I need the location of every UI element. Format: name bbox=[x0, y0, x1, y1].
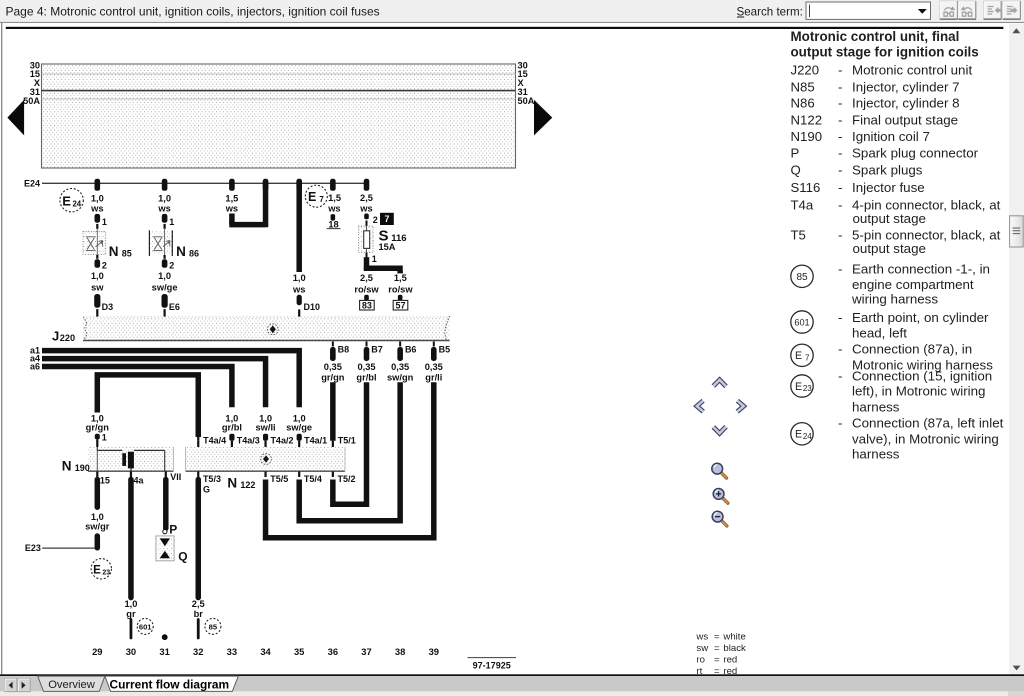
svg-text:2,5: 2,5 bbox=[360, 273, 373, 283]
svg-text:4a: 4a bbox=[134, 475, 145, 485]
svg-text:E: E bbox=[795, 350, 802, 362]
svg-text:0,35: 0,35 bbox=[425, 362, 443, 372]
svg-text:T5: T5 bbox=[791, 227, 806, 242]
svg-text:D3: D3 bbox=[102, 302, 114, 312]
svg-text:Ignition coil 7: Ignition coil 7 bbox=[852, 129, 930, 144]
ignition coil N190 bbox=[62, 447, 174, 474]
svg-text:ws: ws bbox=[157, 204, 170, 214]
svg-text:37: 37 bbox=[361, 646, 371, 657]
legend entry S116 bbox=[791, 180, 925, 195]
earth circle 601 bbox=[137, 618, 153, 634]
svg-text:39: 39 bbox=[429, 646, 439, 657]
svg-text:7: 7 bbox=[319, 195, 324, 204]
svg-text:35: 35 bbox=[294, 646, 304, 657]
svg-text:T5/4: T5/4 bbox=[304, 474, 322, 484]
svg-text:50A: 50A bbox=[518, 96, 535, 106]
bus labels left bbox=[23, 61, 41, 106]
svg-text:1,5: 1,5 bbox=[394, 273, 407, 283]
pin 15 bbox=[96, 472, 110, 486]
svg-text:1,0: 1,0 bbox=[91, 271, 104, 281]
svg-text:N122: N122 bbox=[791, 112, 823, 127]
bus labels right bbox=[518, 61, 535, 106]
svg-text:P: P bbox=[169, 522, 177, 536]
svg-text:1,0: 1,0 bbox=[158, 271, 171, 281]
svg-text:85: 85 bbox=[796, 272, 808, 283]
nav arrow down bbox=[713, 427, 726, 434]
svg-text:15: 15 bbox=[100, 475, 110, 485]
fuse S116 15A bbox=[359, 226, 407, 253]
svg-text:-: - bbox=[838, 342, 842, 357]
svg-text:ro/sw: ro/sw bbox=[354, 285, 379, 295]
svg-text:7: 7 bbox=[384, 214, 389, 224]
svg-text:601: 601 bbox=[139, 622, 152, 631]
svg-text:1,0: 1,0 bbox=[91, 512, 104, 522]
tab Current flow diagram (active) bbox=[105, 676, 238, 691]
svg-text:white: white bbox=[722, 632, 745, 643]
connection circle E7 bbox=[305, 185, 327, 207]
svg-text:-: - bbox=[838, 95, 842, 110]
svg-text:red: red bbox=[723, 655, 737, 666]
nav arrow right bbox=[737, 401, 744, 412]
svg-text:T5/3: T5/3 bbox=[203, 474, 221, 484]
legend entry N122 bbox=[791, 112, 959, 127]
Motronic control unit J220 bbox=[52, 316, 450, 343]
wire T5/5 to B5 bbox=[266, 382, 434, 538]
svg-text:output stage: output stage bbox=[853, 211, 926, 226]
svg-text:34: 34 bbox=[260, 646, 271, 657]
legend entry Q bbox=[791, 163, 923, 178]
wire 0,35 gr/gn from pin B8 bbox=[321, 342, 349, 383]
svg-text:1: 1 bbox=[169, 217, 174, 227]
node E23 spur bbox=[25, 543, 95, 553]
magnifier zoom-in icon bbox=[713, 489, 728, 504]
wire 1,0 gr/gn staple N190 pin1 to T4a/4 bbox=[86, 375, 200, 447]
svg-text:wiring harness: wiring harness bbox=[851, 291, 938, 306]
svg-text:Q: Q bbox=[178, 550, 187, 564]
connection circle E23 bbox=[91, 559, 111, 579]
svg-text:0,35: 0,35 bbox=[324, 362, 342, 372]
svg-text:E: E bbox=[795, 381, 802, 393]
pin T5/5 bbox=[264, 472, 288, 484]
legend entry T4a bbox=[791, 197, 1001, 212]
svg-text:sw/li: sw/li bbox=[255, 422, 275, 432]
svg-text:31: 31 bbox=[159, 646, 169, 657]
bottom rule of diagram pane bbox=[0, 674, 1024, 676]
svg-text:T4a/2: T4a/2 bbox=[270, 436, 293, 446]
continuation arrow left bbox=[7, 100, 24, 136]
svg-text:Connection (15, ignition: Connection (15, ignition bbox=[852, 368, 992, 383]
svg-text:N: N bbox=[62, 459, 72, 474]
legend entry N86 bbox=[791, 95, 960, 110]
svg-text:D10: D10 bbox=[304, 302, 321, 312]
wire 2,5 ro/sw + 1,5 ro/sw branch bbox=[354, 257, 413, 300]
svg-text:24: 24 bbox=[803, 432, 812, 441]
svg-text:Injector fuse: Injector fuse bbox=[852, 180, 925, 195]
svg-text:sw/ge: sw/ge bbox=[286, 422, 312, 432]
toolbar button: jump back bbox=[984, 1, 1002, 19]
svg-text:N: N bbox=[109, 244, 119, 259]
wire a4 1,0 sw/li to T4a bbox=[30, 354, 276, 448]
svg-text:gr/gn: gr/gn bbox=[86, 422, 110, 432]
svg-text:gr/li: gr/li bbox=[425, 373, 442, 383]
current track box 7 bbox=[380, 213, 394, 225]
svg-text:Page 4: Motronic control unit,: Page 4: Motronic control unit, ignition … bbox=[6, 4, 380, 18]
svg-text:-: - bbox=[838, 163, 842, 178]
toolbar background bbox=[0, 0, 1024, 22]
legend title bbox=[791, 29, 979, 59]
svg-text:head, left: head, left bbox=[852, 325, 907, 340]
tab scroll button left bbox=[5, 679, 17, 692]
wire a1 1,0 sw/ge to T4a bbox=[30, 346, 312, 448]
svg-text:J: J bbox=[52, 328, 59, 343]
wire 1,0 ws column 31 bbox=[157, 193, 174, 229]
svg-text:N86: N86 bbox=[791, 95, 815, 110]
wire T5/2 to B7 bbox=[333, 382, 367, 504]
svg-text:harness: harness bbox=[852, 399, 900, 414]
svg-text:-: - bbox=[838, 261, 842, 276]
svg-text:2: 2 bbox=[373, 215, 378, 225]
svg-text:1: 1 bbox=[372, 254, 377, 264]
wire colour key bbox=[695, 632, 746, 678]
legend entry J220 bbox=[791, 62, 973, 77]
svg-text:output stage: output stage bbox=[853, 241, 926, 256]
svg-text:190: 190 bbox=[75, 463, 90, 473]
earth point dot (601) bbox=[162, 634, 168, 640]
pin T5/2 bbox=[332, 472, 356, 484]
wire 1,0 sw column 29 bbox=[91, 255, 113, 317]
svg-text:Overview: Overview bbox=[48, 679, 96, 691]
svg-text:N: N bbox=[176, 244, 186, 259]
bus bar box 30/15/X/31/50A bbox=[42, 64, 516, 168]
svg-text:T5/1: T5/1 bbox=[338, 436, 356, 446]
svg-text:black: black bbox=[723, 643, 746, 654]
svg-text:harness: harness bbox=[852, 447, 900, 462]
svg-text:2: 2 bbox=[102, 260, 107, 270]
wire 1,0 gr column 30 to earth 601 bbox=[124, 480, 137, 639]
svg-text:T5/5: T5/5 bbox=[270, 474, 288, 484]
svg-text:a6: a6 bbox=[30, 361, 40, 371]
svg-text:ws: ws bbox=[327, 204, 340, 214]
svg-text:ws: ws bbox=[359, 204, 372, 214]
legend symbol earth connection 85 bbox=[791, 261, 990, 306]
toolbar button: jump forward bbox=[1003, 1, 1021, 19]
final output stage N122 bbox=[186, 447, 346, 491]
search combobox bbox=[806, 2, 931, 19]
E24 rail junctions bbox=[95, 179, 370, 191]
svg-text:30: 30 bbox=[126, 646, 136, 657]
svg-text:gr/gn: gr/gn bbox=[321, 373, 345, 383]
svg-text:-: - bbox=[838, 310, 842, 325]
svg-text:-: - bbox=[838, 80, 842, 95]
svg-text:gr: gr bbox=[126, 609, 136, 619]
legend entry N190 bbox=[791, 129, 930, 144]
svg-text:E: E bbox=[795, 429, 802, 441]
wire 1,0 ws column 29 bbox=[90, 193, 107, 229]
svg-text:B5: B5 bbox=[439, 345, 451, 355]
svg-text:engine compartment: engine compartment bbox=[852, 277, 974, 292]
wire 0,35 gr/bl from pin B7 bbox=[356, 342, 382, 383]
svg-text:1,0: 1,0 bbox=[293, 273, 306, 283]
svg-text:Earth point, on cylinder: Earth point, on cylinder bbox=[852, 310, 989, 325]
svg-text:15A: 15A bbox=[379, 242, 396, 252]
wire 0,35 sw/gn from pin B6 bbox=[387, 342, 416, 383]
svg-text:1,0: 1,0 bbox=[158, 193, 171, 203]
wire T5/4 to B6 bbox=[299, 382, 400, 521]
wire fuse output pin 1 bbox=[366, 253, 377, 264]
svg-text:=: = bbox=[714, 643, 720, 654]
svg-text:B7: B7 bbox=[371, 345, 383, 355]
svg-text:ws: ws bbox=[90, 204, 103, 214]
svg-text:-: - bbox=[838, 197, 842, 212]
svg-text:B8: B8 bbox=[338, 345, 350, 355]
svg-text:output stage for ignition coil: output stage for ignition coils bbox=[791, 44, 979, 59]
svg-text:Motronic control unit: Motronic control unit bbox=[852, 62, 972, 77]
wire 1,5 ws U-link columns 33-34 bbox=[225, 182, 266, 228]
wire 2,5 ws column 37 bbox=[359, 193, 377, 226]
svg-text:T4a/4: T4a/4 bbox=[203, 436, 226, 446]
svg-text:Search term:: Search term: bbox=[737, 5, 803, 18]
svg-text:N85: N85 bbox=[791, 80, 815, 95]
svg-text:ws: ws bbox=[225, 204, 238, 214]
svg-text:0,35: 0,35 bbox=[357, 362, 375, 372]
svg-text:T4a: T4a bbox=[791, 197, 814, 212]
svg-text:left), in Motronic wiring: left), in Motronic wiring bbox=[852, 384, 985, 399]
svg-text:-: - bbox=[838, 227, 842, 242]
svg-text:T4a/3: T4a/3 bbox=[237, 436, 260, 446]
svg-text:1,0: 1,0 bbox=[124, 599, 137, 609]
injector N85 bbox=[83, 228, 132, 259]
wire E24 rail bbox=[42, 182, 367, 184]
svg-text:2,5: 2,5 bbox=[360, 193, 373, 203]
svg-text:24: 24 bbox=[72, 199, 81, 208]
legend symbol earth point 601 bbox=[791, 310, 989, 341]
magnifier zoom-out icon bbox=[712, 511, 727, 526]
svg-text:18: 18 bbox=[328, 219, 338, 229]
svg-text:E: E bbox=[62, 194, 71, 209]
legend symbol connection E24 bbox=[791, 416, 1004, 462]
svg-text:86: 86 bbox=[189, 249, 199, 259]
svg-text:gr/bl: gr/bl bbox=[222, 422, 242, 432]
wire 0,35 gr/li from pin B5 bbox=[425, 342, 450, 383]
legend symbol connection E23 bbox=[791, 368, 992, 414]
svg-text:1,0: 1,0 bbox=[91, 193, 104, 203]
wire VII to spark plug connector P bbox=[163, 480, 178, 537]
svg-text:=: = bbox=[714, 655, 720, 666]
left pane border bbox=[1, 23, 2, 674]
svg-text:2,5: 2,5 bbox=[192, 599, 205, 609]
svg-text:85: 85 bbox=[122, 249, 132, 259]
svg-text:ro: ro bbox=[696, 655, 705, 666]
wire B8 to T5/1 bbox=[332, 382, 334, 447]
svg-text:38: 38 bbox=[395, 646, 405, 657]
svg-text:-: - bbox=[838, 62, 842, 77]
magnifier pan icon bbox=[712, 463, 727, 478]
svg-text:sw: sw bbox=[91, 283, 104, 293]
svg-text:sw/gr: sw/gr bbox=[85, 522, 110, 532]
svg-text:P: P bbox=[791, 146, 800, 161]
diagram number 97-17925 bbox=[468, 658, 517, 671]
tab bar bbox=[0, 676, 1024, 696]
svg-text:gr/bl: gr/bl bbox=[356, 373, 376, 383]
pin T5/3 with G bbox=[197, 472, 221, 495]
svg-text:S116: S116 bbox=[791, 180, 821, 195]
svg-text:E24: E24 bbox=[24, 179, 40, 189]
current track numbers 29-39 bbox=[92, 646, 439, 657]
pin VII bbox=[165, 472, 182, 482]
svg-text:ro/sw: ro/sw bbox=[388, 285, 413, 295]
wire 2,5 br column 32 to earth 85 bbox=[192, 480, 205, 639]
svg-text:E6: E6 bbox=[169, 302, 180, 312]
svg-text:Spark plug connector: Spark plug connector bbox=[852, 146, 979, 161]
svg-text:Connection (87a), in: Connection (87a), in bbox=[852, 342, 972, 357]
tab Overview bbox=[38, 676, 105, 691]
svg-text:N: N bbox=[227, 475, 237, 490]
svg-text:1: 1 bbox=[102, 433, 107, 443]
toolbar button: search forward bbox=[940, 1, 958, 19]
svg-text:122: 122 bbox=[240, 480, 255, 490]
svg-text:-: - bbox=[838, 368, 842, 383]
svg-text:1,5: 1,5 bbox=[328, 193, 341, 203]
earth circle 85 bbox=[205, 618, 221, 634]
svg-text:ws: ws bbox=[695, 632, 708, 643]
svg-text:29: 29 bbox=[92, 646, 102, 657]
svg-text:23: 23 bbox=[102, 570, 110, 577]
svg-text:97-17925: 97-17925 bbox=[473, 660, 511, 670]
legend symbol connection E7 bbox=[791, 342, 993, 373]
wire 1,0 sw/ge column 31 bbox=[152, 255, 180, 317]
svg-text:-: - bbox=[838, 416, 842, 431]
svg-text:32: 32 bbox=[193, 646, 203, 657]
svg-text:G: G bbox=[203, 484, 210, 494]
continuation arrow right bbox=[534, 100, 552, 136]
svg-text:B6: B6 bbox=[405, 345, 417, 355]
svg-text:-: - bbox=[838, 112, 842, 127]
toolbar button: search backward bbox=[958, 1, 976, 19]
svg-text:E: E bbox=[308, 190, 316, 204]
svg-text:50A: 50A bbox=[23, 96, 40, 106]
connection circle E24 bbox=[60, 189, 83, 212]
svg-text:Final output stage: Final output stage bbox=[852, 112, 958, 127]
spark plugs Q bbox=[156, 536, 188, 564]
terminal box 83 bbox=[360, 300, 375, 310]
svg-text:J220: J220 bbox=[791, 62, 820, 77]
svg-text:Spark plugs: Spark plugs bbox=[852, 163, 923, 178]
svg-text:Earth connection -1-, in: Earth connection -1-, in bbox=[852, 261, 990, 276]
svg-text:E23: E23 bbox=[25, 543, 41, 553]
svg-text:Current flow diagram: Current flow diagram bbox=[110, 678, 230, 692]
vertical scrollbar bbox=[1009, 24, 1024, 675]
svg-text:-: - bbox=[838, 129, 842, 144]
svg-text:Connection (87a, left inlet: Connection (87a, left inlet bbox=[852, 416, 1004, 431]
svg-text:Injector, cylinder 8: Injector, cylinder 8 bbox=[852, 95, 960, 110]
svg-text:1,5: 1,5 bbox=[225, 193, 238, 203]
tab scroll button right bbox=[18, 679, 30, 692]
top rule of diagram pane bbox=[6, 27, 1004, 29]
svg-text:85: 85 bbox=[209, 622, 218, 631]
svg-text:57: 57 bbox=[395, 300, 405, 310]
wire 1,5 ws column 36 to terminal 18 bbox=[327, 193, 341, 230]
svg-text:1: 1 bbox=[102, 217, 107, 227]
svg-text:N190: N190 bbox=[791, 129, 823, 144]
injector N86 bbox=[149, 228, 199, 259]
svg-text:br: br bbox=[194, 609, 204, 619]
svg-text:T5/2: T5/2 bbox=[338, 474, 356, 484]
connector labels T4a/4 T4a/3 T4a/2 T4a/1 T5/1 bbox=[203, 436, 356, 446]
svg-text:T4a/1: T4a/1 bbox=[304, 436, 327, 446]
svg-text:36: 36 bbox=[328, 646, 338, 657]
svg-text:83: 83 bbox=[362, 300, 372, 310]
svg-text:valve), in Motronic wiring: valve), in Motronic wiring bbox=[852, 431, 999, 446]
svg-text:sw: sw bbox=[696, 643, 708, 654]
svg-text:-: - bbox=[838, 146, 842, 161]
svg-text:VII: VII bbox=[170, 472, 181, 482]
terminal box 57 bbox=[393, 300, 408, 310]
legend entry T5 bbox=[791, 227, 1001, 242]
svg-text:sw/ge: sw/ge bbox=[152, 283, 178, 293]
svg-text:601: 601 bbox=[794, 317, 809, 327]
nav arrow up bbox=[713, 380, 726, 387]
legend entry P bbox=[791, 146, 979, 161]
svg-text:220: 220 bbox=[60, 333, 75, 343]
svg-text:2: 2 bbox=[169, 260, 174, 270]
svg-text:Motronic control unit, final: Motronic control unit, final bbox=[791, 29, 960, 44]
legend entry N85 bbox=[791, 80, 960, 95]
svg-text:=: = bbox=[714, 632, 720, 643]
pin 4a bbox=[130, 472, 145, 486]
nav arrow left bbox=[697, 401, 704, 412]
svg-text:Q: Q bbox=[791, 163, 801, 178]
wire a6 1,0 gr/bl to T4a bbox=[30, 361, 242, 447]
svg-text:0,35: 0,35 bbox=[391, 362, 409, 372]
svg-text:Injector, cylinder 7: Injector, cylinder 7 bbox=[852, 80, 960, 95]
svg-text:E: E bbox=[93, 565, 101, 577]
svg-text:33: 33 bbox=[227, 646, 237, 657]
svg-text:23: 23 bbox=[803, 384, 812, 393]
svg-text:7: 7 bbox=[805, 353, 810, 362]
svg-text:-: - bbox=[838, 180, 842, 195]
pin T5/4 bbox=[298, 472, 322, 484]
svg-text:ws: ws bbox=[292, 285, 305, 295]
svg-text:sw/gn: sw/gn bbox=[387, 373, 414, 383]
wire 1,0 sw/gr column 29 to E23 bbox=[85, 480, 110, 548]
wire 1,0 ws column 35 to D10 bbox=[292, 181, 320, 316]
